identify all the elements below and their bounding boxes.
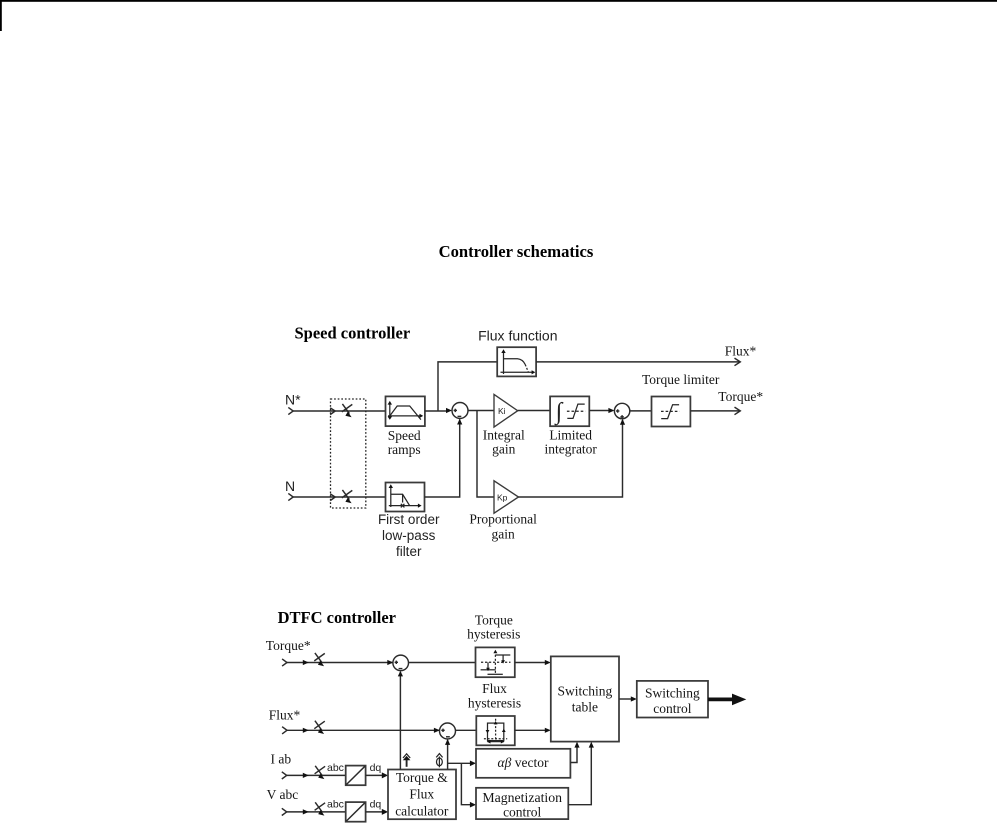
input chevron I ab	[282, 772, 287, 779]
svg-text:Integral: Integral	[483, 428, 525, 443]
arrowhead into sum3	[387, 660, 393, 665]
wire branch to alpha-beta vector	[448, 762, 471, 764]
block first order low-pass filter	[386, 483, 425, 512]
wire sum3 to torque hysteresis	[409, 662, 476, 664]
svg-text:gain: gain	[492, 442, 515, 457]
block torque & flux calculator	[388, 770, 456, 820]
svg-text:control: control	[503, 804, 541, 819]
dashed subsystem box	[331, 399, 366, 508]
wire sum1 to Ki	[468, 410, 494, 412]
wire torque hysteresis to switching table	[515, 662, 546, 664]
switch X on N* row	[342, 404, 353, 417]
svg-text:αβ vector: αβ vector	[498, 755, 549, 770]
wire sum2 to torque limiter	[630, 410, 652, 412]
gain Kp triangle	[494, 481, 519, 513]
switch X on Torque* row	[314, 653, 325, 666]
svg-text:dq: dq	[370, 799, 382, 811]
input chevron Torque*	[282, 659, 287, 666]
svg-text:First order: First order	[378, 512, 440, 527]
block magnetization control	[476, 788, 568, 819]
svg-text:table: table	[572, 699, 598, 714]
svg-text:Flux*: Flux*	[725, 344, 757, 359]
svg-text:integrator: integrator	[544, 442, 597, 457]
block torque hysteresis	[476, 647, 515, 677]
svg-text:N*: N*	[285, 391, 301, 407]
block torque limiter	[652, 397, 691, 427]
chevron at dashed box N* row	[330, 408, 335, 415]
block flux function	[497, 347, 536, 376]
mid arrowhead Torque*	[303, 660, 309, 665]
svg-text:Switching: Switching	[645, 685, 700, 700]
svg-text:N: N	[285, 478, 295, 494]
wire flux estimate up to sum4	[447, 740, 449, 770]
icon torque hysteresis relay	[481, 650, 511, 675]
svg-text:∫: ∫	[554, 399, 564, 426]
svg-text:Speed: Speed	[388, 428, 421, 443]
block abc-dq (V row)	[346, 802, 366, 822]
mid arrowhead Flux*	[303, 728, 309, 733]
wire flux hysteresis to switching table	[515, 729, 546, 731]
svg-text:filter: filter	[396, 544, 422, 559]
wire Flux* row	[287, 729, 439, 731]
wire filter to sum1 bottom	[425, 420, 460, 498]
switch X on I ab row	[315, 766, 326, 779]
wire V abc row	[287, 811, 346, 813]
wire I ab row	[287, 774, 346, 776]
svg-text:Magnetization: Magnetization	[482, 790, 562, 805]
icon low-pass filter	[389, 484, 422, 507]
wire Kp to sum2 bottom	[519, 420, 623, 497]
input chevron N	[288, 493, 293, 500]
svg-text:calculator: calculator	[395, 803, 449, 818]
thick output arrow	[708, 694, 746, 706]
mid arrowhead V abc	[303, 809, 309, 814]
svg-text:Torque*: Torque*	[266, 638, 311, 653]
svg-text:Speed controller: Speed controller	[295, 324, 411, 343]
sum junction S3	[393, 655, 409, 671]
wire abc-dq to calculator (V row)	[366, 811, 383, 813]
switch X on V abc row	[315, 802, 326, 815]
chevron at dashed box N row	[330, 494, 335, 501]
svg-text:Flux: Flux	[482, 681, 507, 696]
svg-text:abc: abc	[327, 762, 344, 774]
switch X on N row	[342, 490, 353, 503]
svg-text:Switching: Switching	[558, 683, 613, 698]
svg-text:hysteresis: hysteresis	[468, 695, 521, 710]
svg-text:Torque: Torque	[475, 613, 513, 628]
svg-text:Flux function: Flux function	[478, 327, 557, 343]
wire sum4 to flux hysteresis	[456, 729, 477, 731]
wire error branch down to Kp	[477, 411, 494, 498]
icon flux function	[501, 349, 536, 374]
switch X on Flux* row	[314, 721, 325, 734]
wire flux output	[536, 361, 739, 363]
svg-text:low-pass: low-pass	[382, 528, 436, 543]
mid arrowhead I ab	[303, 773, 309, 778]
icon speed ramps	[388, 401, 424, 420]
svg-text:Proportional: Proportional	[469, 511, 537, 526]
wire magnetization to table bottom	[568, 747, 591, 805]
wire abc-dq to calculator (I row)	[366, 774, 383, 776]
svg-text:gain: gain	[491, 526, 514, 541]
sum junction S2	[614, 403, 629, 418]
svg-text:dq: dq	[370, 762, 382, 774]
wire ramps to sum1	[425, 410, 447, 412]
arrowhead flux output	[735, 358, 741, 366]
svg-text:Kp: Kp	[497, 492, 508, 502]
wire table to switching control	[619, 698, 631, 700]
page top border	[0, 0, 997, 2]
sum junction S1	[452, 403, 468, 419]
wire torque output	[690, 410, 739, 412]
icon limited integrator	[554, 399, 586, 426]
svg-text:Torque*: Torque*	[718, 389, 763, 404]
svg-text:abc: abc	[327, 798, 344, 810]
block flux hysteresis	[476, 716, 515, 745]
wire branch down to magnetization control	[461, 763, 470, 804]
wire N row	[293, 496, 385, 498]
block switching control	[637, 681, 708, 718]
wire branch up to flux function	[438, 362, 497, 411]
svg-text:Controller schematics: Controller schematics	[439, 242, 594, 261]
svg-text:V abc: V abc	[267, 787, 299, 802]
block alpha-beta vector	[476, 749, 570, 778]
block abc-dq (I row)	[346, 766, 366, 786]
svg-text:Limited: Limited	[549, 427, 592, 442]
arrowhead torque output	[735, 407, 741, 415]
wire integrator to sum2	[589, 410, 609, 412]
arrowhead into sum4	[434, 728, 440, 733]
input chevron Flux*	[282, 727, 287, 734]
wire alpha-beta vector to table bottom	[570, 747, 577, 762]
glyph phi-hat flux estimate	[436, 754, 442, 768]
page left border	[0, 0, 2, 31]
svg-text:Torque &: Torque &	[396, 770, 448, 785]
sum junction S4	[440, 723, 456, 739]
svg-text:I ab: I ab	[271, 751, 292, 766]
block switching table	[551, 656, 619, 741]
input chevron V abc	[282, 808, 287, 815]
glyph T-hat torque estimate	[403, 754, 411, 767]
block speed ramps	[386, 396, 425, 426]
wire torque estimate up to sum3	[399, 672, 401, 770]
wire Ki to limited integrator	[518, 410, 550, 412]
wire Torque* row	[287, 662, 393, 664]
svg-text:DTFC controller: DTFC controller	[278, 608, 396, 627]
input chevron N*	[288, 407, 293, 414]
svg-text:ramps: ramps	[388, 442, 421, 457]
svg-text:Ki: Ki	[498, 406, 506, 416]
svg-text:control: control	[653, 701, 691, 716]
icon torque limiter saturation	[661, 405, 680, 419]
svg-text:Torque limiter: Torque limiter	[642, 372, 720, 387]
svg-text:Flux*: Flux*	[269, 707, 301, 722]
wire N* row	[293, 410, 385, 412]
svg-text:hysteresis: hysteresis	[467, 627, 520, 642]
icon flux hysteresis relay	[484, 719, 507, 744]
gain Ki triangle	[494, 394, 518, 427]
block limited integrator	[550, 396, 589, 426]
svg-text:Flux: Flux	[409, 787, 434, 802]
